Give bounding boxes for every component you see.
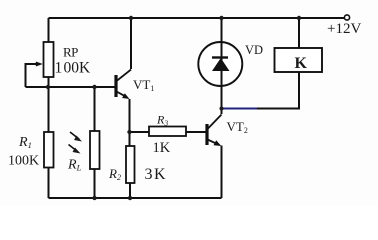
svg-text:RP: RP [63,45,78,60]
wire VT1 emitter to node [129,99,131,146]
resistor R3 [149,127,186,137]
svg-text:+12V: +12V [327,21,361,37]
svg-text:K: K [295,55,308,72]
wire RP bottom [48,77,50,88]
node R2 top / base node [127,130,131,134]
wire R1 bottom [48,168,50,199]
svg-text:1K: 1K [153,140,171,156]
node VT1 collector on rail [129,16,133,20]
wire VT1 collector [130,18,132,69]
wire top rail [49,17,345,19]
svg-text:1 00K: 1 00K [55,60,92,77]
terminal +12V [344,15,349,20]
wire wiper loop [26,64,38,87]
node R2 bottom [128,196,132,200]
svg-text:VD: VD [245,43,263,57]
wire R2 bottom [129,183,131,198]
wire RL bottom [94,169,96,198]
wire K bottom to collector node [256,72,299,109]
wire RL top [94,87,96,131]
wire node to R3 [130,131,150,133]
resistor R1 [44,132,54,168]
diode VD [198,42,242,86]
wire RP top [48,18,50,42]
wire R1 top [48,87,50,132]
svg-text:3K: 3K [145,166,168,183]
wire blue mark on collector node wire [223,108,258,110]
transistor VT1 [116,70,131,100]
node junction dots [46,16,301,200]
node RL top junction [92,85,96,89]
node VT2 collector tee [220,107,224,111]
relay K [275,48,323,72]
transistor VT2 [207,115,222,147]
wire K top [298,18,300,48]
node RL bottom [92,196,96,200]
wire bottom rail [49,197,222,199]
wire base bus y=87 [26,86,116,88]
photoresistor RL [69,131,100,169]
wire VT2 emitter down [221,146,223,199]
wire VD to VT2 collector [221,86,223,114]
wire VD column [221,18,223,44]
svg-text:100K: 100K [8,154,39,169]
node VD on rail [219,16,223,20]
resistor R2 [126,146,135,183]
node RP wiper junction [46,85,50,89]
wire R3 to VT2 base [186,131,206,133]
potentiometer RP [36,42,54,77]
node K on rail [297,16,301,20]
